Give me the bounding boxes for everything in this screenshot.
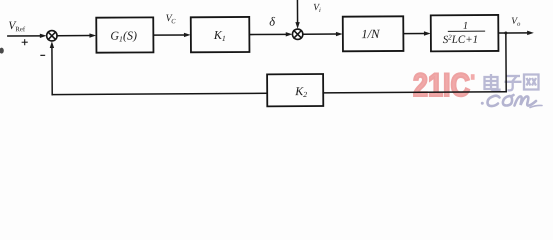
arrowhead into K1 — [184, 33, 191, 37]
arrowhead feedback into sum1 — [50, 41, 54, 48]
wire output — [498, 32, 527, 34]
svg-text:S2LC+1: S2LC+1 — [443, 33, 479, 46]
arrowhead into sum1 — [40, 34, 47, 38]
wire feedback left segment — [52, 93, 267, 94]
wire feedback right segment — [323, 92, 506, 93]
wire 1/N to filter — [403, 32, 424, 34]
子 — [506, 75, 521, 77]
block K1 — [191, 17, 250, 52]
arrowhead into G1 — [89, 33, 96, 37]
svg-text:δ: δ — [269, 15, 275, 29]
网 — [524, 75, 539, 90]
电 — [485, 77, 498, 89]
wire feedback up to sum1 — [51, 47, 53, 95]
m — [515, 96, 537, 105]
wire sum1 to G1 — [57, 35, 90, 37]
arrowhead into sum2 — [286, 32, 293, 36]
arrowhead Vi into sum2 — [295, 22, 299, 29]
c — [488, 96, 500, 106]
block filter 1/(S2LC+1) — [431, 15, 499, 51]
label minus — [41, 54, 45, 56]
wire G1 to K1 — [153, 34, 184, 36]
svg-text:1: 1 — [463, 21, 468, 32]
svg-text:1/N: 1/N — [361, 27, 380, 41]
wire input — [8, 35, 41, 37]
block G1(S) — [96, 17, 153, 52]
block 1/N — [343, 16, 404, 51]
watermark .COM script — [481, 95, 542, 108]
svg-text:G1(S): G1(S) — [110, 28, 137, 43]
watermark 电子网 — [485, 74, 539, 91]
watermark 21IC — [413, 67, 475, 103]
arrowhead output — [527, 31, 534, 35]
label plus — [22, 40, 27, 45]
wire sum2 to 1/N — [303, 33, 337, 35]
node feedback tap junction — [504, 31, 507, 34]
block K2 — [267, 74, 323, 106]
arrowhead into 1/N — [336, 32, 343, 36]
arrowhead into filter — [424, 31, 431, 35]
o — [503, 95, 514, 106]
label filter fraction — [443, 21, 485, 46]
summing junction sum2 — [292, 29, 302, 39]
svg-text:21IC: 21IC — [413, 67, 470, 103]
wire Vi drop — [296, 0, 298, 23]
wire feedback tap down — [505, 33, 507, 92]
scan smudge left edge — [0, 48, 4, 54]
wire K1 to sum2 — [249, 33, 286, 35]
summing junction sum1 — [47, 31, 57, 41]
